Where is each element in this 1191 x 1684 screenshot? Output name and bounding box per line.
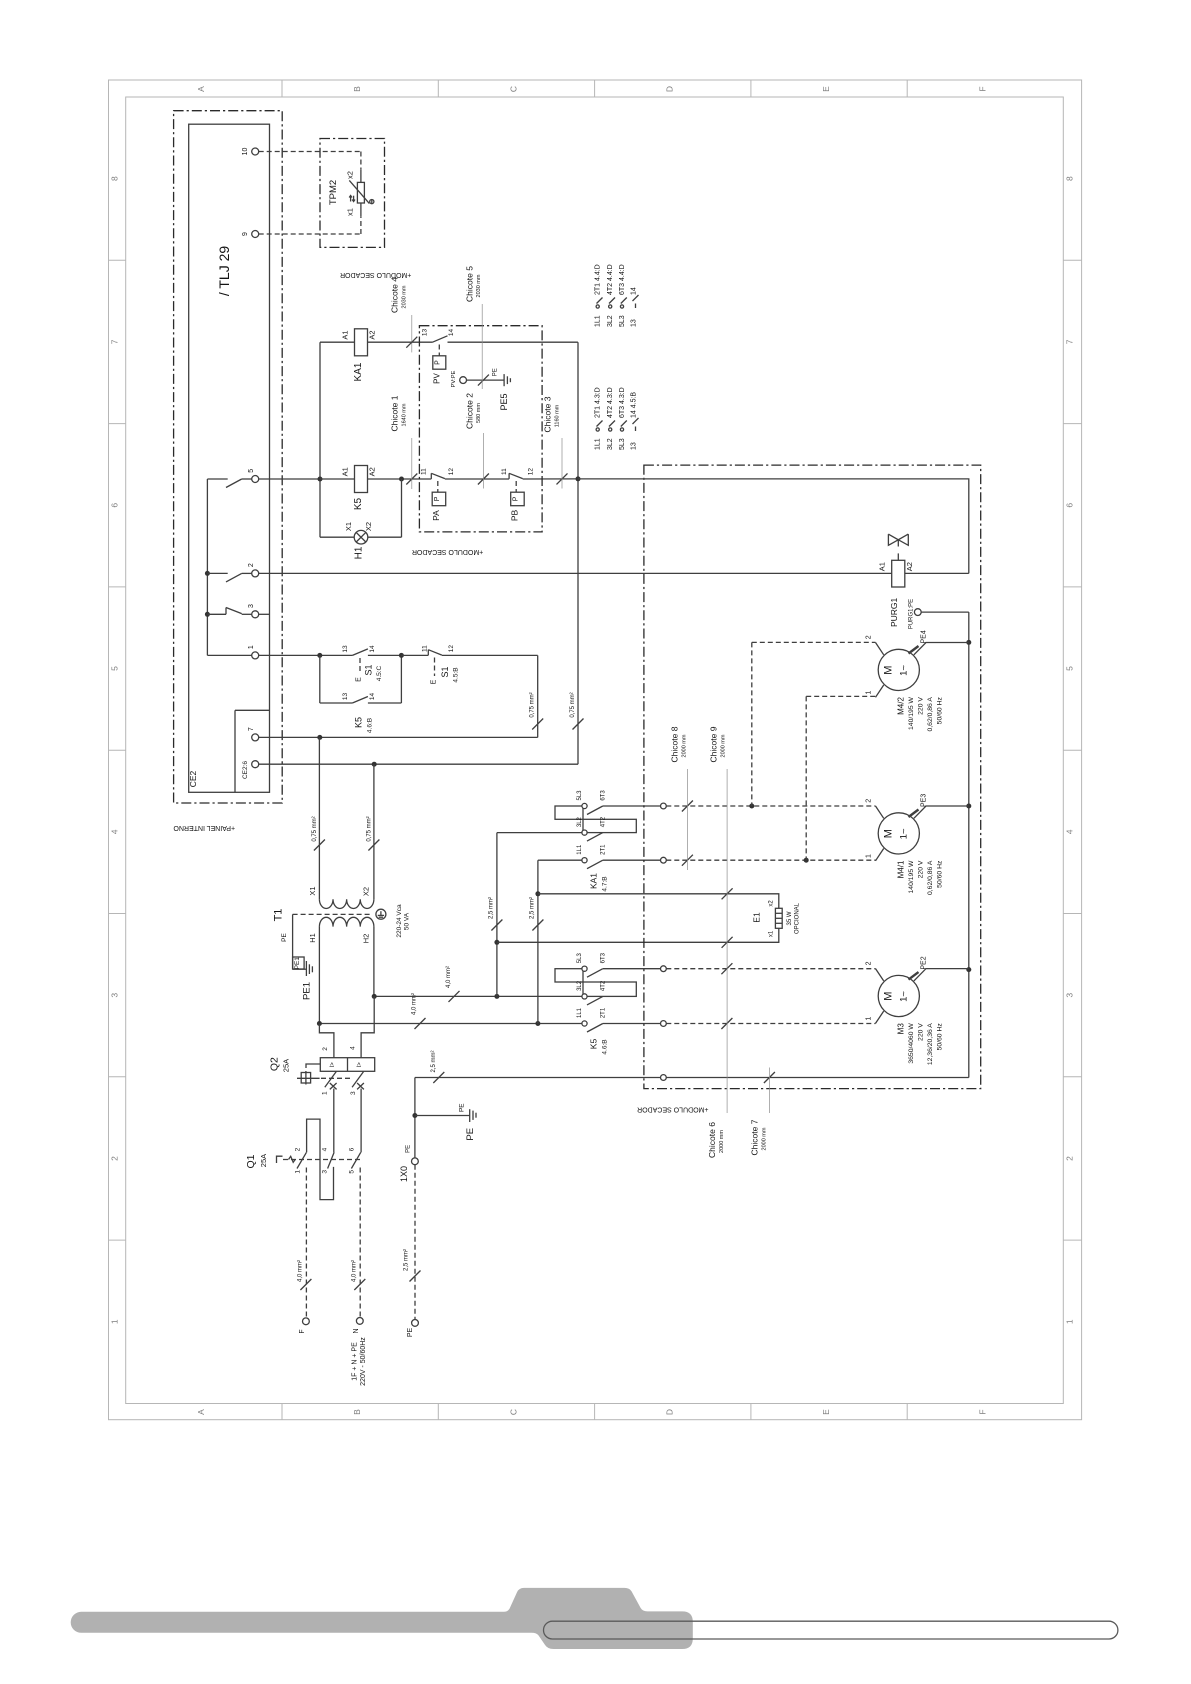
svg-text:Chicote 8: Chicote 8 xyxy=(670,726,680,762)
svg-text:M: M xyxy=(882,829,894,838)
svg-text:D: D xyxy=(665,1409,675,1415)
terminal 7 xyxy=(252,734,259,741)
cable marker on PV:PE wire xyxy=(478,375,489,386)
CE2 internal bus xyxy=(206,479,208,655)
wire E1 lower (x1) xyxy=(497,928,779,942)
motor M3 xyxy=(878,975,919,1016)
svg-text:PE: PE xyxy=(465,1128,476,1141)
motor M4/2 lead 2 xyxy=(876,643,884,655)
enclosure +MODULO SECADOR (TPM2) dash-dot box xyxy=(320,139,385,248)
svg-text:E: E xyxy=(821,86,831,92)
svg-text:X1: X1 xyxy=(344,522,353,531)
cable size 4,0 mm2 marker 1L1 row xyxy=(415,1018,426,1029)
svg-text:1: 1 xyxy=(866,1017,873,1021)
svg-text:C: C xyxy=(508,1409,518,1415)
wire PE supply (dashed) xyxy=(414,1165,416,1320)
power contact KA1 4.7:B pole 3L2-4T2 xyxy=(582,830,587,835)
wire terminal 9 to TPM2 (dashed) xyxy=(259,233,361,235)
svg-text:4,0 mm²: 4,0 mm² xyxy=(298,1260,304,1282)
svg-text:A2: A2 xyxy=(368,330,377,339)
connector pin PE row xyxy=(661,1075,667,1081)
svg-text:Q1: Q1 xyxy=(245,1154,257,1168)
svg-text:A: A xyxy=(196,1409,206,1415)
svg-text:2: 2 xyxy=(295,1147,302,1151)
wire neutral return to module xyxy=(578,479,969,574)
svg-text:0,75 mm²: 0,75 mm² xyxy=(570,692,576,717)
svg-text:1: 1 xyxy=(322,1091,329,1095)
svg-text:4,0 mm²: 4,0 mm² xyxy=(446,966,452,988)
cable size 4,0 mm2 marker 3L2 row xyxy=(449,991,460,1002)
terminal PURG1:PE xyxy=(914,609,921,616)
terminal 5 xyxy=(252,476,259,483)
svg-text:B: B xyxy=(352,1409,362,1415)
cable size 2,5 mm2 marker riser 537 xyxy=(532,920,543,931)
motor M4/1 lead 2 xyxy=(876,806,884,818)
svg-text:+MODULO SECADOR: +MODULO SECADOR xyxy=(412,548,483,555)
svg-text:B: B xyxy=(352,86,362,92)
svg-text:PA: PA xyxy=(431,510,441,521)
relay coil K5 xyxy=(320,478,355,480)
riser wire x=537.9 (1L1 feed) xyxy=(537,860,539,1023)
svg-text:X2: X2 xyxy=(364,522,373,531)
svg-text:14: 14 xyxy=(369,693,376,701)
dashed wire 6T3 row to M3 terminal 2 xyxy=(666,968,875,970)
svg-text:PE: PE xyxy=(459,1103,466,1112)
power contact K5 4.6:B pole 1L1-2T1 xyxy=(540,1023,582,1025)
cable marker Chicote 7 slash xyxy=(764,1072,775,1083)
svg-text:2: 2 xyxy=(1065,1156,1075,1161)
svg-text:3L2: 3L2 xyxy=(577,980,583,991)
enclosure +MODULO SECADOR (pressostats) dash-dot box xyxy=(419,326,542,532)
svg-text:T1: T1 xyxy=(273,909,285,922)
terminal PV:PE xyxy=(460,377,467,384)
svg-text:3: 3 xyxy=(109,993,119,998)
svg-text:Chicote 3: Chicote 3 xyxy=(543,396,553,432)
svg-text:3650/4060 W: 3650/4060 W xyxy=(908,1023,915,1064)
svg-text:P: P xyxy=(512,496,519,501)
svg-text:H2: H2 xyxy=(362,934,371,944)
ground PE (panel) xyxy=(415,1115,470,1117)
svg-text:Chicote 1: Chicote 1 xyxy=(390,395,400,431)
power contact K5 4.6:B pole 5L3-6T3 xyxy=(555,969,583,982)
svg-text:4T2 4.3:D: 4T2 4.3:D xyxy=(607,387,614,418)
svg-text:A1: A1 xyxy=(340,467,349,476)
svg-text:2: 2 xyxy=(866,635,873,639)
svg-text:0,75 mm²: 0,75 mm² xyxy=(530,692,536,717)
svg-text:4: 4 xyxy=(349,1046,356,1050)
svg-text:P: P xyxy=(434,360,441,365)
svg-text:Chicote 5: Chicote 5 xyxy=(464,266,474,302)
svg-text:M: M xyxy=(882,666,894,675)
svg-text:E: E xyxy=(356,677,363,682)
svg-text:2T1: 2T1 xyxy=(601,844,607,855)
svg-text:S1: S1 xyxy=(364,664,374,675)
wire bus coil circuits (vertical) xyxy=(319,342,321,537)
svg-text:3L2: 3L2 xyxy=(577,816,583,827)
enclosure +MODULO SECADOR (dryer module) dash-dot box xyxy=(644,465,981,1089)
Q1 pole 5-6 blade xyxy=(351,1152,360,1168)
svg-text:PE1: PE1 xyxy=(302,982,313,1000)
cable size 2,5 mm2 marker PE supply xyxy=(410,1271,421,1282)
svg-text:4.5:C: 4.5:C xyxy=(376,665,383,681)
svg-text:0,62/0,86 A: 0,62/0,86 A xyxy=(927,697,934,732)
dashed wire 6T3 row to fan motors terminal 2 xyxy=(666,805,875,807)
svg-text:1~: 1~ xyxy=(898,665,909,676)
motor M3 lead 1 xyxy=(876,1011,884,1023)
svg-text:220-24 Vca: 220-24 Vca xyxy=(396,904,403,938)
terminal 3 xyxy=(252,611,259,618)
svg-text:13: 13 xyxy=(342,693,349,701)
svg-text:5: 5 xyxy=(1065,666,1075,671)
wire terminal 1 row xyxy=(259,654,353,656)
cable size 2,5 mm2 marker PE row xyxy=(433,1072,444,1083)
svg-text:6: 6 xyxy=(1065,503,1075,508)
svg-text:A1: A1 xyxy=(878,562,887,571)
motor protector Q2 xyxy=(320,1058,374,1072)
svg-text:2: 2 xyxy=(248,563,255,567)
svg-text:D: D xyxy=(665,86,675,92)
svg-text:2000 mm: 2000 mm xyxy=(682,734,688,757)
svg-text:P: P xyxy=(434,496,441,501)
Q1 pole 1-2 blade xyxy=(297,1152,306,1168)
cable size 0,75 mm2 marker X1 xyxy=(314,840,325,851)
svg-text:A: A xyxy=(196,86,206,92)
wire row 3L2 (Q2-4 / H2 to K5 power contact) xyxy=(374,995,585,997)
svg-text:13: 13 xyxy=(631,442,638,450)
svg-text:Chicote 7: Chicote 7 xyxy=(750,1119,760,1155)
cable markers Chicote 9 on E1 wires xyxy=(722,888,733,899)
svg-text:50/60 Hz: 50/60 Hz xyxy=(937,697,944,725)
svg-text:6T3: 6T3 xyxy=(601,790,607,801)
svg-text:1L1: 1L1 xyxy=(595,315,602,327)
svg-text:4.7:B: 4.7:B xyxy=(602,876,609,891)
motor M4/1 xyxy=(878,813,919,854)
svg-text:F: F xyxy=(299,1329,306,1333)
svg-text:12: 12 xyxy=(448,468,455,476)
stub terminal 3 to box edge xyxy=(259,613,270,615)
svg-text:PE: PE xyxy=(407,1328,414,1338)
svg-text:4T2: 4T2 xyxy=(601,980,607,991)
svg-text:4T2 4.4:D: 4T2 4.4:D xyxy=(607,264,614,295)
svg-text:2000 mm: 2000 mm xyxy=(719,1130,725,1153)
svg-text:0,75 mm²: 0,75 mm² xyxy=(312,816,318,841)
svg-text:1F + N + PE: 1F + N + PE xyxy=(351,1342,358,1381)
svg-text:I>: I> xyxy=(330,1062,336,1068)
svg-text:PE5: PE5 xyxy=(499,393,509,410)
wire H1 to 1L1 row xyxy=(318,927,320,1024)
svg-text:1~: 1~ xyxy=(898,991,909,1002)
svg-text:PURG1:PE: PURG1:PE xyxy=(908,599,914,629)
svg-text:K5: K5 xyxy=(354,717,364,728)
indicator lamp H1 branch xyxy=(320,536,354,538)
svg-text:2,5 mm²: 2,5 mm² xyxy=(488,897,494,919)
svg-text:+PAINEL INTERNO: +PAINEL INTERNO xyxy=(173,824,235,831)
motor M3 lead 2 xyxy=(876,969,884,981)
svg-text:F: F xyxy=(977,86,987,91)
svg-text:5L3: 5L3 xyxy=(619,315,626,327)
svg-text:2T1 4.4:D: 2T1 4.4:D xyxy=(595,264,602,295)
cable marker Chicote 4 xyxy=(406,337,417,348)
wire terminal CE2:6 row xyxy=(259,763,578,765)
Q1 pole 3-4 blade xyxy=(328,1152,335,1168)
svg-text:35 W: 35 W xyxy=(787,911,793,925)
svg-text:K5: K5 xyxy=(589,1039,599,1050)
svg-text:E1: E1 xyxy=(752,912,762,923)
svg-text:PE: PE xyxy=(281,933,288,942)
Q1 series link busbar xyxy=(307,1119,334,1200)
motor M4/2 xyxy=(878,649,919,690)
power contact KA1 4.7:B pole 1L1-2T1 xyxy=(540,859,582,861)
svg-text:25A: 25A xyxy=(282,1059,291,1072)
svg-text:x2: x2 xyxy=(769,900,775,907)
svg-text:X1: X1 xyxy=(308,886,317,895)
svg-text:2000 mm: 2000 mm xyxy=(762,1127,768,1150)
svg-text:12,36/20,36 A: 12,36/20,36 A xyxy=(927,1023,934,1065)
wire PE row to dryer module xyxy=(415,1077,969,1079)
cable markers on K5 coil wire xyxy=(406,474,417,485)
svg-text:8: 8 xyxy=(109,176,119,181)
svg-text:14: 14 xyxy=(448,329,455,337)
heater resistor E1 xyxy=(775,908,782,928)
svg-text:4.5:B: 4.5:B xyxy=(453,667,460,682)
wire E1 upper (x2) xyxy=(538,894,779,909)
svg-text:6: 6 xyxy=(348,1147,355,1151)
sheet frame outer border xyxy=(109,80,1082,1420)
plug arrows of TPM2 xyxy=(350,196,352,202)
cable size 4,0 mm2 marker N xyxy=(354,1279,365,1290)
svg-text:1X0: 1X0 xyxy=(399,1166,409,1182)
cable size 0,75 mm2 marker (S1 drop) xyxy=(532,719,543,730)
svg-text:PE: PE xyxy=(406,1145,412,1153)
svg-text:PE: PE xyxy=(493,368,499,376)
svg-text:11: 11 xyxy=(501,468,508,475)
frame column dividers xyxy=(281,80,283,97)
svg-text:6: 6 xyxy=(109,503,119,508)
sheet frame inner border xyxy=(126,97,1064,1404)
wire KA1 3L2 row xyxy=(497,832,582,834)
svg-text:7: 7 xyxy=(109,339,119,344)
svg-text:13: 13 xyxy=(422,329,429,337)
svg-text:1L1: 1L1 xyxy=(577,844,583,855)
svg-text:5L3: 5L3 xyxy=(577,790,583,801)
ground lead PE4 xyxy=(909,646,919,654)
cable size 0,75 mm2 marker X2 xyxy=(368,840,379,851)
svg-text:4T2: 4T2 xyxy=(601,816,607,827)
viewer scrubber track capsule xyxy=(544,1621,1118,1639)
svg-text:6T3: 6T3 xyxy=(601,952,607,963)
wire terminal 10 to TPM2 (dashed) xyxy=(259,151,361,153)
svg-text:2,5 mm²: 2,5 mm² xyxy=(431,1050,437,1072)
svg-text:2: 2 xyxy=(322,1047,329,1051)
svg-text:2T1 4.3:D: 2T1 4.3:D xyxy=(595,387,602,418)
svg-text:0,62/0,86 A: 0,62/0,86 A xyxy=(927,860,934,895)
wire PURG1:PE to PE bus xyxy=(921,611,969,613)
wire PV:PE to ground xyxy=(467,379,505,381)
svg-text:2: 2 xyxy=(109,1156,119,1161)
svg-text:M3: M3 xyxy=(897,1023,906,1035)
power contact KA1 4.7:B pole 5L3-6T3 xyxy=(555,806,583,819)
svg-text:CE2:6: CE2:6 xyxy=(242,761,249,779)
svg-text:7: 7 xyxy=(248,727,255,731)
svg-text:C: C xyxy=(508,86,518,92)
terminal CE2:6 xyxy=(252,761,259,768)
svg-text:580 mm: 580 mm xyxy=(476,403,482,423)
relay coil KA1 xyxy=(355,329,368,356)
svg-text:140/195 W: 140/195 W xyxy=(908,697,915,730)
cable markers Chicote 8 xyxy=(682,801,693,812)
ground lead PE2 xyxy=(909,972,919,980)
wire terminal 5 to K5 coil xyxy=(259,478,320,480)
svg-text:x1: x1 xyxy=(769,930,775,937)
switch arm terminal 2 xyxy=(205,571,210,576)
svg-text:220 V: 220 V xyxy=(918,697,925,715)
svg-text:H1: H1 xyxy=(308,933,317,943)
svg-text:3L2: 3L2 xyxy=(607,315,614,327)
manual operator of Q2 xyxy=(306,1064,320,1068)
svg-text:8: 8 xyxy=(1065,176,1075,181)
svg-text:A2: A2 xyxy=(905,562,914,571)
svg-text:4: 4 xyxy=(109,829,119,834)
terminal 9 xyxy=(252,231,259,238)
motor M4/2 lead 1 xyxy=(876,685,884,697)
ground PE5 xyxy=(503,374,505,386)
svg-text:2,5 mm²: 2,5 mm² xyxy=(403,1249,409,1271)
transformer T1 primary winding xyxy=(319,917,373,926)
wire Q2 terminal 4 jog xyxy=(361,996,374,1057)
wire KA1 1L1 feed corner xyxy=(538,859,540,861)
svg-text:4: 4 xyxy=(321,1147,328,1151)
svg-text:2: 2 xyxy=(866,961,873,965)
cable markers Chicote 6 xyxy=(721,963,732,974)
svg-text:12: 12 xyxy=(528,468,535,476)
supply terminal N xyxy=(356,1318,363,1325)
ground lead PE3 xyxy=(909,810,919,818)
svg-text:4.6:B: 4.6:B xyxy=(367,718,374,733)
svg-text:14: 14 xyxy=(369,645,376,653)
svg-text:Q2: Q2 xyxy=(269,1057,281,1071)
svg-text:11: 11 xyxy=(420,468,427,475)
svg-text:220 V: 220 V xyxy=(918,860,925,878)
svg-text:4: 4 xyxy=(1065,829,1075,834)
auxiliary contact K5 4.6:B 13-14 (parallel branch) xyxy=(319,655,321,703)
valve symbol PURG1 xyxy=(888,534,898,545)
cable size 0,75 mm2 marker (neutral riser) xyxy=(573,719,584,730)
svg-text:TPM2: TPM2 xyxy=(328,180,339,205)
svg-text:F: F xyxy=(977,1409,987,1414)
svg-text:3: 3 xyxy=(350,1091,357,1095)
svg-text:PE4: PE4 xyxy=(921,630,928,643)
svg-text:5: 5 xyxy=(348,1170,355,1174)
svg-text:1: 1 xyxy=(248,645,255,649)
interface box / TLJ 29 xyxy=(189,124,270,792)
terminal 2 xyxy=(252,570,259,577)
wire row 1L1 (Q2-2 / H1 to K5 power contact) xyxy=(319,1023,538,1025)
svg-text:5L3: 5L3 xyxy=(619,438,626,450)
svg-text:9: 9 xyxy=(242,232,249,236)
wire X2 (CE2:6 to transformer) xyxy=(373,764,375,899)
svg-text:14: 14 xyxy=(631,287,638,295)
svg-text:x2: x2 xyxy=(346,171,355,179)
wire K5 coil to PA contact xyxy=(368,478,432,480)
Q2 trip contacts xyxy=(325,1072,337,1088)
wire phase F (dashed) xyxy=(305,1168,307,1318)
dashed wire 2T1 row to M3 terminal 1 xyxy=(666,1023,875,1025)
wire X1 (terminal 7 to transformer) xyxy=(318,737,320,899)
svg-text:2: 2 xyxy=(866,799,873,803)
svg-text:11: 11 xyxy=(421,645,428,652)
solenoid valve coil PURG1 xyxy=(892,560,905,587)
svg-text:6T3 4.4:D: 6T3 4.4:D xyxy=(619,264,626,295)
dashed wire M4/2 terminal 2 branch xyxy=(751,642,753,806)
wire H2 to 3L2 row xyxy=(373,927,375,997)
svg-text:6T3 4.3:D: 6T3 4.3:D xyxy=(619,387,626,418)
svg-text:140/195 W: 140/195 W xyxy=(908,860,915,893)
svg-text:12: 12 xyxy=(448,645,455,653)
Q1 operating linkage (dashed) xyxy=(277,1156,283,1163)
terminal 1 xyxy=(252,652,259,659)
wire terminal 2 row to PURG1 xyxy=(259,572,892,574)
svg-text:1: 1 xyxy=(109,1319,119,1324)
svg-text:E: E xyxy=(821,1409,831,1415)
svg-text:+MODULO SECADOR: +MODULO SECADOR xyxy=(637,1106,708,1113)
wire KA1 coil row xyxy=(320,341,355,343)
svg-text:K5: K5 xyxy=(353,497,364,510)
svg-text:X2: X2 xyxy=(362,887,371,896)
svg-text:1L1: 1L1 xyxy=(577,1007,583,1018)
wire neutral riser (CE2:6 to coils) xyxy=(577,342,579,764)
svg-text:5: 5 xyxy=(109,666,119,671)
svg-text:PE2: PE2 xyxy=(921,956,928,969)
svg-text:x1: x1 xyxy=(346,208,355,216)
switch contact S1 4.5:B 11-12 xyxy=(401,654,428,656)
cable size 4,0 mm2 marker F xyxy=(300,1279,311,1290)
terminal 10 xyxy=(252,148,259,155)
wire terminal 1 to bus xyxy=(207,654,251,656)
wire KA1 coil to PV contact xyxy=(368,341,433,343)
svg-text:1640 mm: 1640 mm xyxy=(402,403,408,426)
svg-text:25A: 25A xyxy=(259,1154,268,1167)
wire S1 4.5:B output down to terminal 7 row xyxy=(537,655,539,737)
supply terminal F xyxy=(303,1318,310,1325)
terminal 1X0:PE xyxy=(412,1158,419,1165)
svg-text:13: 13 xyxy=(342,645,349,653)
svg-text:PB: PB xyxy=(509,510,519,522)
temperature sensor TPM2 xyxy=(360,169,362,182)
power contact K5 4.6:B pole 3L2-4T2 xyxy=(582,994,587,999)
motor M4/1 lead 1 xyxy=(876,849,884,861)
wire neutral N (dashed) xyxy=(359,1168,361,1318)
svg-text:1: 1 xyxy=(866,690,873,694)
svg-text:220V - 50/60Hz: 220V - 50/60Hz xyxy=(360,1337,367,1386)
enclosure +PAINEL INTERNO dash-dot box xyxy=(174,111,283,803)
supply terminal PE xyxy=(412,1320,419,1327)
svg-text:CE2: CE2 xyxy=(188,770,198,787)
svg-text:Chicote 2: Chicote 2 xyxy=(464,393,474,429)
transformer T1 screen (dashed) xyxy=(293,913,371,915)
svg-text:2,5 mm²: 2,5 mm² xyxy=(529,897,535,919)
svg-text:1160 mm: 1160 mm xyxy=(555,404,561,427)
svg-text:KA1: KA1 xyxy=(353,362,364,381)
svg-text:2030 mm: 2030 mm xyxy=(476,274,482,297)
ground PE1 of transformer xyxy=(292,914,294,969)
svg-text:3: 3 xyxy=(248,604,255,608)
svg-text:50/60 Hz: 50/60 Hz xyxy=(937,1023,944,1051)
svg-text:2000 mm: 2000 mm xyxy=(720,734,726,757)
svg-text:A1: A1 xyxy=(340,330,349,339)
svg-text:1L1: 1L1 xyxy=(595,438,602,450)
PE bus of dryer module xyxy=(968,612,970,1077)
svg-text:4.6:B: 4.6:B xyxy=(602,1039,609,1054)
